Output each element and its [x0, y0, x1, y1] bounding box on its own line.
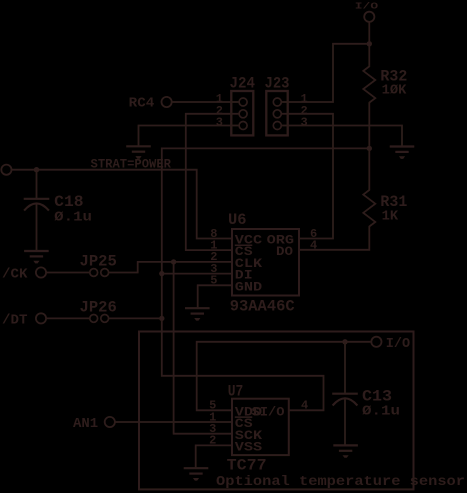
svg-text:DO: DO	[276, 245, 294, 259]
svg-text:J23: J23	[265, 75, 290, 93]
svg-text:JP25: JP25	[80, 252, 117, 270]
svg-text:AN1: AN1	[73, 416, 98, 432]
svg-text:TC77: TC77	[227, 456, 267, 474]
svg-text:U7: U7	[228, 382, 244, 400]
svg-text:VSS: VSS	[235, 441, 263, 455]
svg-text:I/O: I/O	[386, 336, 410, 352]
svg-text:I/O: I/O	[355, 0, 379, 11]
svg-text:J24: J24	[230, 75, 256, 93]
svg-text:C18: C18	[54, 193, 83, 211]
svg-text:3: 3	[301, 116, 308, 130]
svg-text:SI/O: SI/O	[252, 405, 286, 419]
svg-text:/CK: /CK	[2, 266, 28, 282]
svg-text:Ø.1u: Ø.1u	[362, 404, 400, 420]
svg-text:Ø.1u: Ø.1u	[54, 210, 92, 226]
svg-text:RC4: RC4	[129, 96, 155, 112]
svg-text:93AA46C: 93AA46C	[230, 297, 295, 315]
svg-text:1K: 1K	[382, 209, 399, 225]
svg-text:JP26: JP26	[80, 299, 117, 317]
svg-text:3: 3	[216, 116, 223, 130]
svg-text:Optional temperature sensor: Optional temperature sensor	[216, 474, 465, 490]
svg-text:4: 4	[301, 399, 308, 413]
svg-text:U6: U6	[228, 211, 247, 229]
svg-text:2: 2	[209, 434, 216, 448]
svg-text:5: 5	[210, 274, 217, 288]
svg-text:1ØK: 1ØK	[382, 82, 407, 98]
svg-text:4: 4	[310, 238, 317, 252]
svg-text:GND: GND	[235, 280, 263, 294]
svg-text:/DT: /DT	[2, 312, 28, 328]
svg-text:STRAT=POWER: STRAT=POWER	[91, 157, 172, 172]
